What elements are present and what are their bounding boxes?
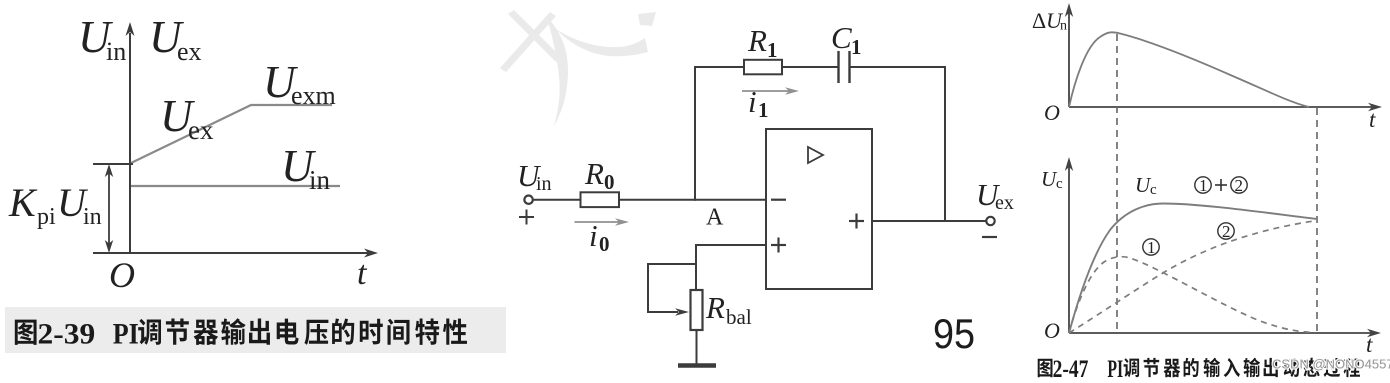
ground xyxy=(678,363,716,368)
left graph: y-axis xyxy=(126,22,135,253)
svg-text:1: 1 xyxy=(1199,176,1208,195)
svg-text:1: 1 xyxy=(851,35,862,59)
svg-text:in: in xyxy=(83,204,102,230)
svg-text:0: 0 xyxy=(599,232,610,256)
svg-text:t: t xyxy=(1366,332,1373,357)
R_bal wiper connection xyxy=(648,264,696,316)
resistor R0 xyxy=(581,192,620,207)
svg-text:pi: pi xyxy=(37,204,56,230)
svg-text:PI: PI xyxy=(113,318,139,351)
svg-text:ex: ex xyxy=(995,192,1014,214)
svg-text:O: O xyxy=(109,255,135,295)
right bottom graph: dashed curve 1 xyxy=(1069,257,1315,333)
svg-text:ex: ex xyxy=(188,115,214,145)
wire to R1 xyxy=(694,66,744,68)
op-amp U1 rectangle xyxy=(766,129,872,289)
left graph: double arrow K_pi U_in xyxy=(105,164,113,253)
left graph: U_ex curve (ramp to plateau) xyxy=(131,105,332,163)
left graph: U_in horizontal line xyxy=(131,185,340,187)
caption text 图2-39 PI调节器输出电压的时间特性 xyxy=(15,320,37,345)
right bottom graph: label circled 1 + circled 2 xyxy=(1195,177,1247,193)
right bottom graph: solid U_c curve xyxy=(1069,204,1317,334)
svg-text:R: R xyxy=(705,290,725,325)
dashed line at settle time xyxy=(1316,108,1318,333)
svg-text:i: i xyxy=(589,218,598,253)
wire R_bal to ground xyxy=(696,330,698,364)
svg-text:2-39: 2-39 xyxy=(38,318,96,351)
op-amp minus input sign xyxy=(771,199,786,201)
wire C1 to right xyxy=(850,66,946,68)
right bottom graph: dashed curve 2 xyxy=(1069,221,1317,334)
svg-text:K: K xyxy=(8,180,38,225)
wire plus input to R_bal branch xyxy=(696,245,766,290)
right bottom graph: x-axis xyxy=(1069,329,1381,337)
wire input to R0 xyxy=(533,199,580,201)
svg-text:1: 1 xyxy=(767,38,778,62)
svg-text:0: 0 xyxy=(604,170,615,194)
capacitor C1 xyxy=(839,51,850,83)
output terminal U_ex circle xyxy=(986,217,994,225)
feedback wire down to output xyxy=(944,66,946,222)
svg-text:in: in xyxy=(536,173,552,195)
svg-text:exm: exm xyxy=(291,81,336,110)
watermark logo (light gray) xyxy=(500,10,656,126)
svg-text:bal: bal xyxy=(726,305,752,329)
svg-text:O: O xyxy=(1044,100,1060,125)
svg-text:n: n xyxy=(1060,19,1067,34)
input terminal U_in circle xyxy=(524,196,532,204)
minus sign at output xyxy=(982,236,997,238)
dashed line at peak time xyxy=(1116,34,1118,333)
svg-text:Δ: Δ xyxy=(1032,8,1046,33)
right bottom graph: y-axis xyxy=(1065,157,1073,333)
svg-text:PI: PI xyxy=(1107,356,1123,383)
caption bar fig 2-39 xyxy=(5,307,506,353)
right top graph: y-axis xyxy=(1065,3,1073,107)
svg-text:2: 2 xyxy=(1222,222,1231,241)
svg-text:2-47: 2-47 xyxy=(1053,356,1089,383)
svg-text:2: 2 xyxy=(1235,176,1244,195)
plus sign at input xyxy=(519,210,534,225)
potentiometer R_bal xyxy=(691,290,703,330)
svg-text:1: 1 xyxy=(758,98,769,122)
svg-text:95: 95 xyxy=(933,311,975,357)
svg-text:t: t xyxy=(1369,107,1376,132)
svg-text:in: in xyxy=(309,165,331,195)
svg-text:A: A xyxy=(706,205,724,231)
wire R1 to C1 xyxy=(782,66,838,68)
output wire xyxy=(872,220,986,222)
svg-text:R: R xyxy=(584,156,604,191)
op-amp output plus sign xyxy=(849,214,864,229)
svg-text:in: in xyxy=(106,37,126,66)
op-amp plus input sign xyxy=(771,238,786,253)
svg-text:t: t xyxy=(357,255,368,292)
svg-text:c: c xyxy=(1056,176,1063,192)
op-amp triangle symbol xyxy=(808,147,823,163)
left graph: tick at K_pi U_in top xyxy=(93,163,133,165)
right bottom graph: label circled 1 xyxy=(1143,239,1159,255)
right top graph: x-axis xyxy=(1069,103,1382,111)
resistor R1 xyxy=(744,60,782,75)
svg-text:CSDN @NONO4557: CSDN @NONO4557 xyxy=(1272,357,1390,372)
right top graph: ΔU_n curve xyxy=(1069,32,1309,107)
svg-text:c: c xyxy=(1150,182,1157,198)
right bottom graph: label circled 2 xyxy=(1218,223,1234,239)
left graph: x-axis (t) xyxy=(93,249,378,258)
svg-text:R: R xyxy=(747,23,767,58)
svg-text:O: O xyxy=(1044,318,1060,343)
svg-text:ex: ex xyxy=(177,37,202,66)
current arrow i0 xyxy=(575,218,630,226)
svg-text:C: C xyxy=(831,20,852,55)
wire R0 to op-amp minus input xyxy=(619,199,766,201)
svg-text:1: 1 xyxy=(1147,238,1156,257)
svg-text:i: i xyxy=(748,84,757,119)
current arrow i1 xyxy=(742,87,799,95)
caption text 图2-47 PI调节器的输入输出动态过程 xyxy=(1038,359,1053,377)
wire node A up to feedback branch xyxy=(694,66,696,201)
